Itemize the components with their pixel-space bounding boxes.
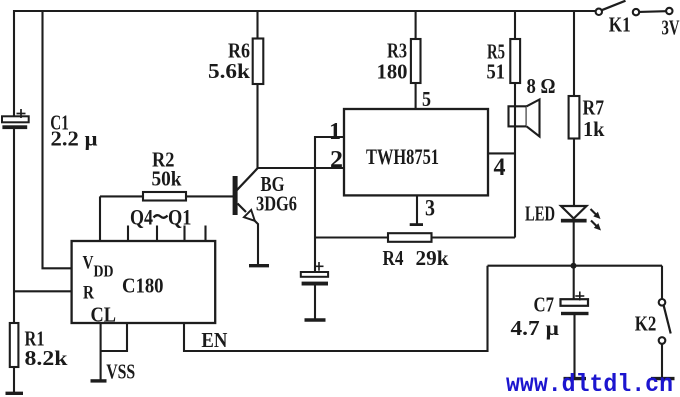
svg-text:K1: K1 xyxy=(609,13,631,37)
svg-text:3: 3 xyxy=(425,196,435,221)
capacitor (unlabeled, at pin 2) xyxy=(301,262,328,286)
ground (below K2) xyxy=(651,377,675,380)
svg-text:4: 4 xyxy=(494,154,506,181)
svg-text:Q4: Q4 xyxy=(130,205,153,230)
svg-text:5: 5 xyxy=(422,87,431,111)
svg-text:5.6k: 5.6k xyxy=(208,59,250,83)
switch K2 xyxy=(659,266,671,378)
wire top rail xyxy=(14,10,596,12)
ground (below C7) xyxy=(564,377,587,380)
svg-text:V: V xyxy=(83,253,94,274)
wire pin1/pin2 node down to cap xyxy=(314,168,316,273)
wire R2 base wire xyxy=(100,195,233,197)
svg-text:LED: LED xyxy=(525,202,555,226)
speaker BL 8ohm xyxy=(509,100,540,137)
resistor R3 xyxy=(411,39,421,83)
svg-text:www.dltdl.cn: www.dltdl.cn xyxy=(506,370,673,397)
wire LED to junction xyxy=(573,223,575,266)
ground (below R1) xyxy=(6,392,24,395)
wire R7 vertical xyxy=(573,11,575,206)
switch K1 xyxy=(596,1,673,16)
svg-text:1k: 1k xyxy=(583,117,605,141)
node R-pin junction wire xyxy=(14,290,72,292)
svg-text:R: R xyxy=(83,283,94,304)
wire second left vertical (to VDD) xyxy=(43,10,72,268)
svg-text:CL: CL xyxy=(91,303,117,327)
svg-text:50k: 50k xyxy=(152,167,182,191)
resistor R4 xyxy=(388,233,432,242)
transistor emitter diagonal xyxy=(238,204,247,213)
svg-text:3DG6: 3DG6 xyxy=(256,192,297,216)
wire R6 vertical xyxy=(256,11,258,168)
ground bar (pin 3) xyxy=(410,223,423,226)
svg-text:8.2k: 8.2k xyxy=(25,346,68,370)
wire R2 left leg down to C180 top xyxy=(99,196,101,241)
resistor R5 xyxy=(510,39,520,83)
svg-text:8 Ω: 8 Ω xyxy=(527,74,556,98)
capacitor C7 xyxy=(561,266,589,315)
wire cap to ground xyxy=(314,286,316,320)
svg-text:3V: 3V xyxy=(662,16,680,40)
svg-text:R4: R4 xyxy=(383,246,404,270)
LED cathode bar xyxy=(561,219,587,223)
wire C7 to ground xyxy=(573,314,575,378)
resistor R7 xyxy=(569,96,580,139)
transistor base bar xyxy=(233,176,238,215)
wire emitter down xyxy=(255,221,259,265)
wire R1 to ground xyxy=(13,367,15,393)
svg-text:180: 180 xyxy=(377,60,408,84)
label tilde between Q4 and Q1 xyxy=(154,215,168,218)
transistor Q1 BG 3DG6 collector diagonal xyxy=(237,168,259,191)
wire pin1 bracket xyxy=(315,137,344,168)
wire junction rail (LED node) xyxy=(488,265,663,267)
svg-text:29k: 29k xyxy=(416,246,449,270)
svg-text:TWH8751: TWH8751 xyxy=(366,144,439,169)
wire pin5 / R3 vertical xyxy=(415,11,417,109)
svg-text:Q1: Q1 xyxy=(168,205,192,230)
IC U1 TWH8751 xyxy=(344,109,488,195)
resistor R2 xyxy=(143,192,186,201)
resistor R6 xyxy=(253,39,264,85)
svg-text:EN: EN xyxy=(201,328,227,352)
svg-text:51: 51 xyxy=(487,60,506,84)
pin stubs Q4~Q1 xyxy=(127,226,129,242)
wire EN horizontal and up xyxy=(184,266,488,351)
ground (emitter) xyxy=(249,264,269,267)
wire pin2 horizontal (collector node to TWH8751) xyxy=(258,167,345,169)
capacitor C1 xyxy=(2,109,29,129)
svg-text:DD: DD xyxy=(94,262,114,281)
LED light arrows xyxy=(591,209,602,231)
LED triangle xyxy=(561,206,587,219)
svg-text:C180: C180 xyxy=(122,274,164,298)
ground (VSS) xyxy=(91,379,107,382)
node junction dot xyxy=(571,263,577,269)
svg-text:2.2 µ: 2.2 µ xyxy=(51,126,98,150)
IC C180 xyxy=(72,241,216,323)
ground (below cap) xyxy=(305,318,326,321)
svg-text:K2: K2 xyxy=(635,312,657,336)
wire CL bracket xyxy=(101,323,127,351)
wire left branch lower (C1 to R junction and R1) xyxy=(13,129,15,324)
resistor R1 xyxy=(10,323,19,367)
wire R4 left segment xyxy=(315,236,388,238)
svg-text:VSS: VSS xyxy=(106,360,135,384)
wire left branch upper (to C1) xyxy=(13,10,15,117)
svg-text:C7: C7 xyxy=(534,293,555,317)
wire R5/speaker vertical xyxy=(514,11,516,238)
svg-text:4.7 µ: 4.7 µ xyxy=(511,316,560,340)
wire R4 right segment xyxy=(432,236,516,238)
svg-text:2: 2 xyxy=(330,147,343,173)
wire pin4 horizontal xyxy=(488,152,515,154)
svg-text:1: 1 xyxy=(329,119,341,145)
pin 3 stub xyxy=(416,195,418,223)
emitter arrowhead (open) xyxy=(244,210,255,221)
